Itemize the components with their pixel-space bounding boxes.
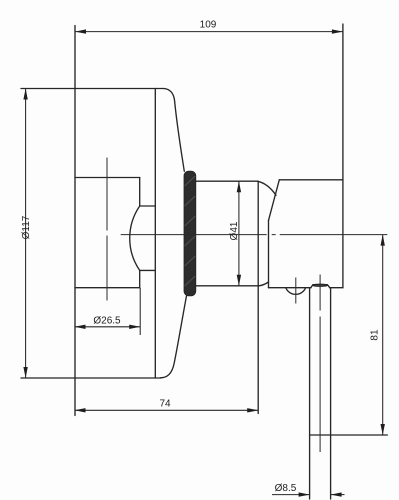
dim 81 top arrow (381, 235, 385, 246)
dim 74 right arrow (247, 408, 258, 412)
dim 109 left arrow (75, 29, 86, 33)
dim dia26.5 right arrow (129, 325, 140, 329)
svg-text:109: 109 (200, 19, 217, 30)
dim 74 left arrow (75, 408, 86, 412)
body box bottom edge left part (269, 287, 312, 289)
plate top edge + dia117 top extension (21, 88, 164, 90)
dim dia8.5 left arrow (299, 492, 310, 496)
handle recess top line (75, 177, 140, 179)
body box bottom edge right part (330, 287, 343, 289)
handle stem centerline (106, 158, 108, 302)
dim 81 line (382, 235, 384, 435)
handle ball arc (130, 206, 140, 270)
dim dia117 top arrow (23, 89, 27, 100)
body box top edge (279, 179, 343, 181)
dim 74 line (75, 409, 259, 411)
dim dia8.5 left line (272, 494, 310, 496)
taper top arc (257, 181, 276, 195)
pipe left wall + extension (309, 288, 311, 499)
dim dia41 line (238, 181, 240, 286)
main horizontal centerline (121, 234, 388, 236)
pipe collar (311, 285, 330, 288)
svg-text:Ø41: Ø41 (229, 221, 240, 240)
dim dia8.5 right arrow (331, 492, 342, 496)
plate left edge / extension line (74, 26, 76, 416)
dim dia26.5 line (75, 326, 141, 328)
dim dia117 bottom arrow (23, 367, 27, 378)
pipe collar top ellipse (313, 284, 327, 286)
plate front face line (154, 89, 156, 379)
valve cylinder top (196, 180, 258, 182)
dim dia8.5 right line (331, 494, 345, 496)
dim 109 right arrow (332, 29, 343, 33)
taper vertical (268, 220, 270, 287)
plate bottom edge + dia117 bottom extension (21, 377, 161, 379)
svg-text:74: 74 (159, 398, 171, 409)
handle recess lower vertical (139, 270, 141, 287)
centerlines (107, 158, 387, 453)
svg-text:81: 81 (370, 329, 381, 341)
dim dia41 bottom arrow (237, 275, 241, 286)
body box right edge + 109 extension (342, 24, 344, 288)
gasket seal ring (184, 171, 196, 296)
handle recess bottom line (75, 287, 140, 289)
dim dia41 top arrow (237, 181, 241, 192)
pipe right wall + extension (330, 288, 332, 499)
dim dia26.5 left arrow (75, 325, 86, 329)
taper slant (269, 180, 280, 221)
valve cylinder bottom (196, 285, 259, 287)
dome top-right curve (164, 89, 184, 172)
svg-text:Ø8.5: Ø8.5 (275, 483, 297, 494)
handle recess lower step (140, 269, 156, 271)
pipe end line + 81 extension (310, 434, 388, 436)
set screw arc (286, 288, 306, 295)
handle recess upper step (140, 205, 156, 207)
set screw centerline (295, 278, 297, 304)
dome bottom-right curve (161, 296, 187, 378)
dim dia26.5 right extension (139, 288, 141, 335)
svg-text:Ø117: Ø117 (21, 215, 32, 239)
valve cylinder right edge + 74 extension (257, 181, 259, 413)
dim 109 line (75, 31, 343, 33)
dim 81 bottom arrow (381, 424, 385, 435)
taper bottom arc (259, 282, 269, 286)
pipe centerline (319, 275, 321, 453)
handle recess upper vertical (139, 178, 141, 207)
svg-text:Ø26.5: Ø26.5 (93, 316, 121, 327)
dim dia117 line (25, 89, 27, 379)
